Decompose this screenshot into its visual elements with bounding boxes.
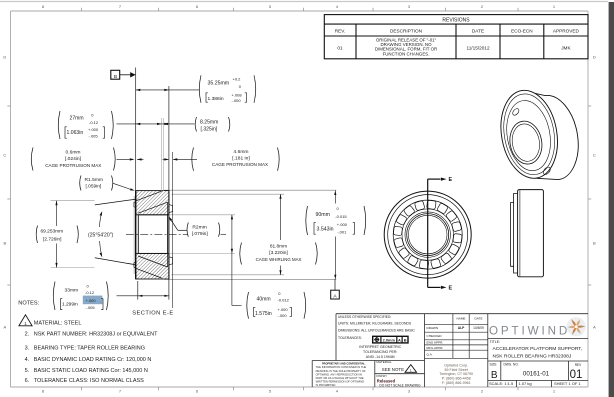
svg-text:+0.2: +0.2: [233, 76, 242, 81]
svg-text:1.575in: 1.575in: [255, 311, 272, 317]
svg-text:SHEET 1 OF 1: SHEET 1 OF 1: [554, 381, 581, 386]
svg-text:FINISH: FINISH: [376, 374, 386, 378]
svg-text:-.000: -.000: [278, 313, 288, 318]
bore opening: [138, 215, 167, 254]
svg-text:E: E: [449, 177, 453, 183]
svg-text:MFG APPR.: MFG APPR.: [427, 346, 444, 350]
svg-text:-0.12: -0.12: [89, 120, 99, 125]
svg-text:ECO-ECN: ECO-ECN: [511, 29, 533, 34]
svg-text:C: C: [3, 153, 6, 158]
svg-text:59 Field Street: 59 Field Street: [445, 368, 468, 372]
svg-text:01: 01: [337, 46, 343, 51]
svg-text:REVISIONS: REVISIONS: [442, 17, 470, 23]
svg-text:WRITTEN PERMISSION OF OPTIWIND: WRITTEN PERMISSION OF OPTIWIND: [316, 380, 365, 384]
svg-text:+.000: +.000: [86, 298, 97, 303]
svg-text:FUNCTION CHANGES.: FUNCTION CHANGES.: [383, 51, 430, 56]
svg-text:2.0mm: 2.0mm: [383, 338, 396, 343]
svg-text:SIZE: SIZE: [490, 362, 497, 366]
dimension 0.6mm cage protrusion: [31, 148, 143, 171]
svg-text:PROPRIETARY AND CONFIDENTIAL: PROPRIETARY AND CONFIDENTIAL: [322, 363, 366, 366]
notes list: [18, 301, 158, 385]
svg-text:ANSI -14.5 1994M: ANSI -14.5 1994M: [366, 355, 395, 359]
svg-text:35.25mm: 35.25mm: [208, 80, 230, 86]
svg-text:+.008: +.008: [232, 92, 243, 97]
svg-text:DESCRIPTION: DESCRIPTION: [390, 29, 422, 34]
svg-text:[.059in]: [.059in]: [86, 184, 102, 190]
dimension R1.5mm leader: [80, 176, 135, 191]
front view rings: [384, 191, 471, 278]
svg-text:[.079in]: [.079in]: [192, 231, 209, 237]
dimension 25deg54'20 angle: [88, 211, 114, 257]
title block spec text: [338, 315, 415, 340]
svg-text:40mm: 40mm: [257, 297, 271, 303]
svg-text:OPTIWIND. ANY REPRODUCTION IN: OPTIWIND. ANY REPRODUCTION IN: [316, 372, 362, 376]
dimension 69.253mm: [36, 201, 94, 268]
svg-text:C: C: [593, 153, 596, 158]
dimension 81.8mm cage whirling: [240, 194, 317, 275]
svg-text:BASIC STATIC LOAD RATING Cor:: BASIC STATIC LOAD RATING Cor: 145,000 N: [34, 368, 148, 374]
svg-text:PART OR AS A WHOLE WITHOUT THE: PART OR AS A WHOLE WITHOUT THE: [316, 376, 364, 380]
svg-text:BEARING TYPE: TAPER ROLLER BEA: BEARING TYPE: TAPER ROLLER BEARING: [34, 346, 145, 352]
proprietary and confidential block: [316, 363, 367, 388]
revisions table: [324, 15, 588, 59]
svg-text:SCALE: 1:1.5: SCALE: 1:1.5: [489, 381, 514, 386]
side view: [511, 190, 544, 277]
svg-text:NAME: NAME: [457, 316, 466, 320]
svg-text:-0.12: -0.12: [85, 290, 95, 295]
tolerance feature control frame: [373, 336, 408, 343]
section extension lines: [164, 190, 336, 279]
svg-text:TOLERANCE CLASS: ISO NORMAL CL: TOLERANCE CLASS: ISO NORMAL CLASS: [34, 378, 144, 384]
cage nubs: [134, 202, 173, 268]
front view rollers: [393, 200, 462, 269]
size dwg rev row: [489, 362, 582, 386]
dimension 27mm: [58, 111, 194, 139]
dimension R2mm leader: [169, 216, 220, 237]
window right scrollbar strip: [609, 2, 614, 397]
svg-text:8.25mm: 8.25mm: [200, 120, 218, 126]
svg-text:2.: 2.: [25, 332, 30, 338]
svg-text:Optiwind Corp.: Optiwind Corp.: [444, 363, 468, 367]
cone back face: [134, 191, 136, 279]
svg-text:THE INFORMATION CONTAINED IN T: THE INFORMATION CONTAINED IN THE: [316, 365, 367, 369]
svg-text:69.253mm: 69.253mm: [41, 229, 64, 235]
svg-text:D: D: [3, 55, 6, 60]
dimension 90mm: [306, 190, 366, 279]
svg-text:81.8mm: 81.8mm: [270, 244, 287, 250]
title block grid: [312, 314, 588, 387]
svg-text:[2.726in]: [2.726in]: [43, 236, 61, 242]
svg-text:B: B: [404, 338, 407, 343]
svg-text:Torrington, CT 06790: Torrington, CT 06790: [439, 372, 473, 376]
svg-text:OPTIWIND: OPTIWIND: [489, 324, 570, 337]
svg-text:5.: 5.: [25, 368, 30, 374]
svg-text:DATE: DATE: [472, 29, 484, 34]
svg-text:ENG APPR.: ENG APPR.: [427, 341, 444, 345]
title text: [490, 340, 583, 359]
cone taper lines: [95, 199, 136, 265]
svg-text:(25°54'20"): (25°54'20"): [88, 232, 114, 238]
svg-text:DWG. NO.: DWG. NO.: [504, 362, 519, 366]
svg-text:DIMENSIONS: ALL UNTOLERANCED: DIMENSIONS: ALL UNTOLERANCED ARE BASIC: [338, 329, 415, 333]
svg-text:F: (860) 866-9961: F: (860) 866-9961: [442, 381, 471, 385]
svg-text:0.6mm: 0.6mm: [66, 149, 81, 155]
svg-text:-0.015: -0.015: [335, 214, 347, 219]
svg-text:B: B: [114, 74, 117, 80]
svg-text:E: E: [449, 286, 453, 292]
svg-text:4.6mm: 4.6mm: [234, 149, 249, 155]
svg-text:-.005: -.005: [86, 305, 96, 310]
finish released stamp: [376, 374, 421, 387]
svg-text:UNLESS OTHERWISE SPECIFIED:: UNLESS OTHERWISE SPECIFIED:: [338, 315, 391, 319]
svg-text:-.005: -.005: [89, 133, 99, 138]
svg-text:33mm: 33mm: [65, 288, 79, 294]
svg-text:IS PROHIBITED.: IS PROHIBITED.: [316, 383, 337, 387]
svg-text:B: B: [593, 241, 596, 246]
svg-text:B: B: [491, 370, 498, 381]
svg-text:1.063in: 1.063in: [67, 130, 84, 136]
cutting line E-E: [428, 177, 453, 292]
svg-text:B: B: [3, 241, 6, 246]
svg-text:DRAWN: DRAWN: [427, 326, 439, 330]
svg-text:TOLERANCES:: TOLERANCES:: [338, 336, 362, 340]
svg-text:REV: REV: [575, 363, 582, 367]
dimension 4.6mm cage protrusion: [163, 148, 280, 171]
vertical extension lines: [136, 68, 173, 309]
svg-text:TITLE:: TITLE:: [490, 340, 501, 344]
svg-text:CHECKED: CHECKED: [427, 334, 443, 338]
dimension 8.25mm: [195, 117, 230, 132]
svg-text:TOLERANCING PER:: TOLERANCING PER:: [363, 350, 397, 354]
svg-text:SECTION E-E: SECTION E-E: [132, 310, 173, 316]
svg-text:00161-01: 00161-01: [523, 370, 550, 377]
svg-text:-.000: -.000: [232, 98, 242, 103]
svg-text:90mm: 90mm: [316, 212, 330, 218]
svg-text:6.: 6.: [25, 378, 30, 384]
svg-text:+.000: +.000: [337, 222, 348, 227]
centerline: [126, 233, 226, 235]
svg-text:[.325in]: [.325in]: [201, 126, 218, 132]
dimension 33mm with selection highlight: [53, 282, 169, 311]
company address: [439, 363, 473, 385]
svg-text:1.388in: 1.388in: [208, 96, 224, 102]
svg-text:[.024in]: [.024in]: [65, 156, 82, 162]
svg-text:-.001: -.001: [337, 229, 347, 234]
svg-text:ALP: ALP: [458, 326, 465, 330]
svg-text:CAGE PROTRUSION MAX: CAGE PROTRUSION MAX: [212, 162, 268, 167]
svg-text:3.543in: 3.543in: [317, 227, 334, 233]
svg-text:NSK ROLLER BEARING HR32308J: NSK ROLLER BEARING HR32308J: [493, 353, 572, 359]
drawn checked table: [427, 316, 485, 356]
svg-text:11/15/2012: 11/15/2012: [466, 46, 490, 51]
datum B: [111, 70, 136, 80]
isometric view: [494, 86, 578, 183]
svg-text:ACCELERATOR PLATFORM SUPPORT,: ACCELERATOR PLATFORM SUPPORT,: [493, 346, 583, 352]
section hatched rings: [136, 191, 169, 279]
svg-text:01: 01: [570, 369, 583, 381]
svg-text:3.: 3.: [25, 346, 30, 352]
datum A: [331, 279, 340, 299]
svg-text:+.000: +.000: [278, 307, 289, 312]
svg-text:BASIC DYNAMIC LOAD RATING Cr:: BASIC DYNAMIC LOAD RATING Cr: 120,000 N: [34, 357, 152, 363]
svg-text:MATERIAL: MATERIAL: [376, 360, 392, 364]
window top edge line: [0, 1, 608, 3]
svg-text:27mm: 27mm: [70, 116, 84, 122]
svg-text:R1.5mm: R1.5mm: [85, 177, 103, 183]
svg-text:D: D: [593, 55, 596, 60]
svg-text:R2mm: R2mm: [192, 225, 206, 231]
svg-text:NSK PART NUMBER: HR32308J or: NSK PART NUMBER: HR32308J or EQUIVALENT: [34, 332, 158, 338]
svg-text:DO NOT SCALE DRAWING: DO NOT SCALE DRAWING: [379, 383, 421, 387]
material see note: [376, 360, 416, 373]
svg-text:+.000: +.000: [88, 127, 99, 132]
svg-text:CAGE WHIRLING MAX: CAGE WHIRLING MAX: [256, 257, 302, 262]
dimension 35.25mm: [136, 75, 256, 103]
svg-text:A: A: [398, 338, 401, 343]
svg-text:-0.012: -0.012: [278, 298, 290, 303]
svg-text:DRAWING IS THE SOLE PROPERTY O: DRAWING IS THE SOLE PROPERTY OF: [316, 369, 366, 373]
svg-text:NOTES:: NOTES:: [18, 301, 39, 307]
svg-text:SEE NOTE: SEE NOTE: [382, 367, 404, 372]
svg-text:A: A: [3, 325, 6, 330]
svg-text:DATE: DATE: [474, 316, 482, 320]
svg-text:MATERIAL: STEEL: MATERIAL: STEEL: [34, 320, 82, 326]
svg-text:1.299in: 1.299in: [62, 301, 78, 307]
svg-text:APPROVED: APPROVED: [553, 29, 580, 34]
svg-text:UNITS: MILLIMETER, KILOGRAMS,: UNITS: MILLIMETER, KILOGRAMS, SECONDS: [338, 321, 412, 325]
svg-text:4.: 4.: [25, 357, 30, 363]
svg-text:1: 1: [410, 369, 412, 373]
interpret geometric text: [359, 345, 401, 359]
dimension 40mm: [231, 215, 306, 319]
svg-text:JMK: JMK: [561, 46, 571, 51]
svg-text:REV.: REV.: [335, 29, 346, 34]
svg-text:P: (860) 866-4458: P: (860) 866-4458: [442, 377, 471, 381]
svg-text:A: A: [593, 325, 596, 330]
svg-text:Q.A.: Q.A.: [427, 352, 433, 356]
svg-text:1.07 kg: 1.07 kg: [519, 381, 532, 386]
svg-text:[3.220in]: [3.220in]: [269, 250, 287, 256]
svg-text:CAGE PROTRUSION MAX: CAGE PROTRUSION MAX: [45, 163, 101, 168]
optiwind logo: [489, 317, 586, 337]
svg-text:10/5/09: 10/5/09: [473, 326, 484, 330]
svg-text:[.181 in]: [.181 in]: [232, 155, 250, 161]
svg-text:INTERPRET GEOMETRIC: INTERPRET GEOMETRIC: [359, 345, 401, 349]
